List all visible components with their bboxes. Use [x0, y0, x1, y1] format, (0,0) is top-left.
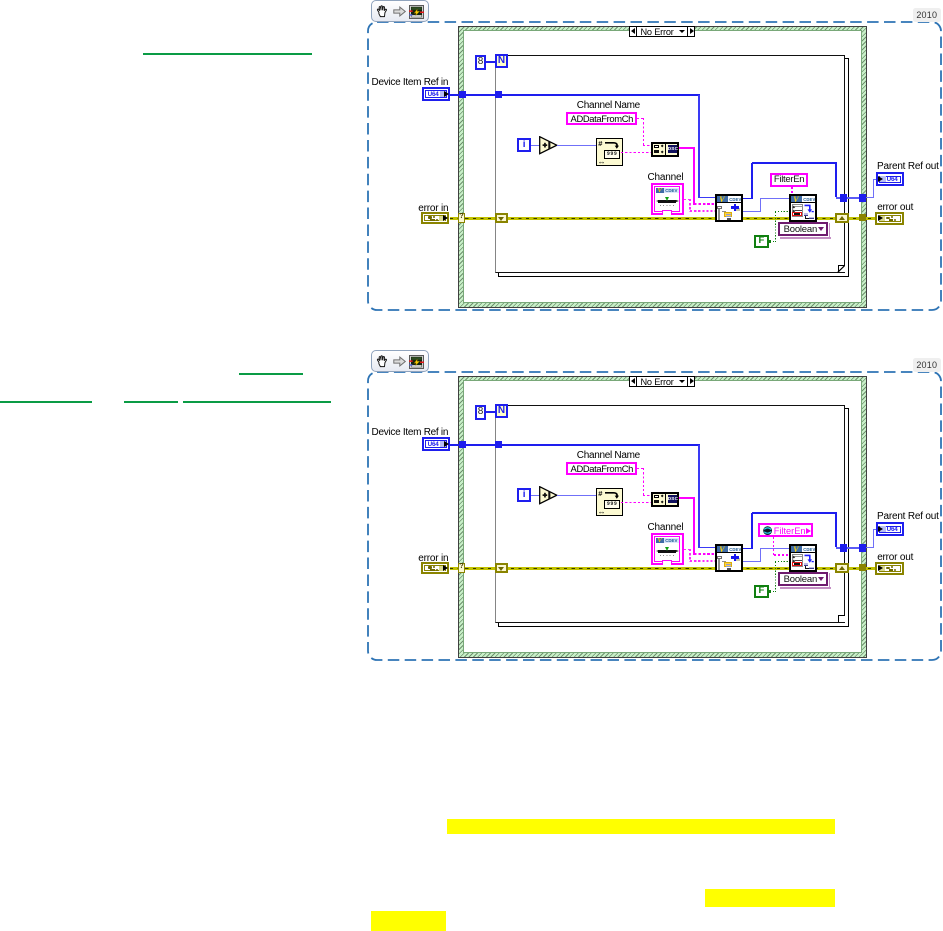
- wire i to increment (diagram 1): [531, 145, 540, 146]
- hyperlink underline 3b: [124, 401, 179, 403]
- write channel property VI (diagram 1): [789, 194, 817, 222]
- step arrow icon (diagram 2): [393, 356, 407, 368]
- VI snippet dashed border (diagram 1): [366, 20, 943, 312]
- concatenate + DSC node (diagram 2): [651, 492, 679, 507]
- case selector ? terminal (diagram 2): [458, 563, 465, 573]
- indicator terminal Parent Ref out (diagram 2): [876, 522, 904, 536]
- label Channel Name (diagram 2): [577, 450, 640, 461]
- boolean wire F to write VI (diagram 1): [770, 241, 776, 242]
- LabVIEW VI icon (diagram 1): [409, 5, 424, 19]
- right shift register (diagram 2): [835, 563, 849, 573]
- left shift register (diagram 1): [495, 213, 508, 223]
- ref tunnel on loop frame (diagram 1): [495, 91, 502, 98]
- text highlight 1: [447, 819, 835, 834]
- toolbar tab (diagram 1): [371, 0, 429, 21]
- ref tunnel on case frame (diagram 1): [459, 91, 466, 98]
- for loop back frame (diagram 2): [498, 408, 849, 627]
- ref tunnel on case frame right (diagram 2): [859, 544, 866, 551]
- string wire constant to concat (diagram 1): [637, 118, 644, 119]
- indicator terminal Parent Ref out (diagram 1): [876, 172, 904, 186]
- error wire (diagram 1): [450, 217, 876, 220]
- loop corner fold (diagram 1): [838, 265, 845, 272]
- iteration terminal i (diagram 1): [517, 138, 531, 152]
- string wire constant to concat (diagram 2): [637, 468, 644, 469]
- hand tool icon (diagram 1): [375, 4, 389, 19]
- increment node (diagram 2): [539, 486, 559, 505]
- case structure frame (diagram 2): [458, 376, 867, 658]
- string wire format to concat (diagram 2): [621, 502, 652, 503]
- number-to-string format node (diagram 2): [596, 488, 624, 515]
- label error in (diagram 2): [418, 553, 448, 564]
- loop count terminal N (diagram 2): [495, 404, 508, 418]
- wire to Parent Ref out terminal (diagram 2): [866, 547, 874, 548]
- error out indicator terminal (diagram 1): [875, 212, 904, 225]
- Boolean type ring constant (diagram 1): [829, 223, 830, 237]
- case selector label "No Error" (diagram 2): [629, 376, 695, 388]
- string wire format to concat (diagram 1): [621, 152, 652, 153]
- Channel cluster control icon (diagram 2): [651, 533, 684, 566]
- case structure frame (diagram 1): [458, 26, 867, 308]
- wire rail drop to add-channel VI (diagram 1): [698, 95, 700, 198]
- add channel to library VI (diagram 1): [715, 194, 743, 222]
- string constant ADDataFromCh (diagram 2): [566, 462, 637, 475]
- case selector label "No Error" (diagram 1): [629, 26, 695, 38]
- toolbar tab (diagram 2): [371, 350, 429, 371]
- wire 8 to N (diagram 2): [486, 411, 495, 412]
- string constant FilterEn (diagram 1): [770, 173, 808, 187]
- hand tool icon (diagram 2): [375, 354, 389, 369]
- error out indicator terminal (diagram 2): [875, 562, 904, 575]
- string wire FilterEn shared variable to write VI (diagram 2): [773, 537, 775, 555]
- case selector ? terminal (diagram 1): [458, 213, 465, 223]
- LabVIEW VI icon (diagram 2): [409, 355, 424, 369]
- label Channel (diagram 1): [648, 172, 684, 183]
- iteration terminal i (diagram 2): [517, 488, 531, 502]
- wire add-channel VI out to rail (diagram 2): [743, 548, 753, 550]
- boolean false constant F (diagram 2): [754, 585, 768, 598]
- number-to-string format node (diagram 1): [596, 138, 624, 165]
- step arrow icon (diagram 1): [393, 6, 407, 18]
- string wire concat out (diagram 1): [679, 147, 695, 149]
- wire channel ref to write VI (diagram 2): [743, 561, 761, 562]
- string wire FilterEn to write VI (diagram 1): [791, 187, 793, 194]
- ref tunnel on loop frame right (diagram 1): [840, 194, 847, 201]
- error wire (diagram 2): [450, 567, 876, 570]
- hyperlink underline 2: [239, 373, 303, 375]
- boolean false constant F (diagram 1): [754, 235, 768, 248]
- wire add-channel VI out to rail (diagram 1): [743, 198, 753, 200]
- numeric constant 8 (diagram 1): [475, 55, 486, 70]
- reference wire rail (diagram 1): [450, 94, 700, 96]
- string wire concat out (diagram 2): [679, 497, 695, 499]
- boolean wire F to write VI (diagram 2): [770, 591, 776, 592]
- cluster wire Channel to add-channel VI (diagram 2): [684, 549, 691, 551]
- increment node (diagram 1): [539, 136, 559, 155]
- Boolean type ring constant (diagram 2): [829, 573, 830, 587]
- add-channel VI banner (diagram 1): [717, 196, 741, 203]
- wire to Parent Ref out terminal (diagram 1): [866, 197, 874, 198]
- control terminal Device Item Ref in (diagram 2): [422, 437, 450, 451]
- label error in (diagram 1): [418, 203, 448, 214]
- for loop back frame (diagram 1): [498, 58, 849, 277]
- for loop front frame (diagram 2): [495, 405, 846, 624]
- numeric constant 8 (diagram 2): [475, 405, 486, 420]
- ref tunnel on loop frame (diagram 2): [495, 441, 502, 448]
- cluster wire Channel to add-channel VI (diagram 1): [684, 199, 691, 201]
- LabVIEW 2010 version chip (diagram 1): [913, 8, 942, 22]
- error tunnel on case frame (diagram 2): [859, 564, 866, 571]
- wire increment to format (diagram 1): [557, 145, 596, 146]
- label Channel (diagram 2): [648, 522, 684, 533]
- label error out (diagram 1): [877, 202, 913, 213]
- wire 8 to N (diagram 1): [486, 61, 495, 62]
- add channel to library VI (diagram 2): [715, 544, 743, 572]
- hyperlink underline 1: [143, 53, 313, 55]
- left shift register (diagram 2): [495, 563, 508, 573]
- label error out (diagram 2): [877, 552, 913, 563]
- wire increment to format (diagram 2): [557, 495, 596, 496]
- hyperlink underline 3a: [0, 401, 92, 403]
- text highlight 2: [705, 889, 835, 907]
- right shift register (diagram 1): [835, 213, 849, 223]
- Channel cluster control icon (diagram 1): [651, 183, 684, 216]
- write channel property VI (diagram 2): [789, 544, 817, 572]
- text highlight 3: [371, 911, 446, 931]
- reference wire rail (diagram 2): [450, 444, 700, 446]
- label Channel Name (diagram 1): [577, 100, 640, 111]
- VI snippet dashed border (diagram 2): [366, 370, 943, 662]
- ref tunnel on case frame right (diagram 1): [859, 194, 866, 201]
- LabVIEW 2010 version chip (diagram 2): [913, 358, 942, 372]
- ref tunnel on case frame (diagram 2): [459, 441, 466, 448]
- string constant ADDataFromCh (diagram 1): [566, 112, 637, 125]
- ref tunnel on loop frame right (diagram 2): [840, 544, 847, 551]
- add-channel VI banner (diagram 2): [717, 546, 741, 553]
- loop count terminal N (diagram 1): [495, 54, 508, 68]
- hyperlink underline 3c: [183, 401, 331, 403]
- write VI banner (diagram 2): [791, 546, 815, 553]
- wire channel ref to write VI (diagram 1): [743, 211, 761, 212]
- wire rail drop to add-channel VI (diagram 2): [698, 445, 700, 548]
- label Device Item Ref in (diagram 1): [372, 77, 449, 88]
- label Device Item Ref in (diagram 2): [372, 427, 449, 438]
- label Parent Ref out (diagram 1): [877, 161, 939, 172]
- concatenate + DSC node (diagram 1): [651, 142, 679, 157]
- error in terminal (diagram 1): [421, 212, 449, 225]
- error tunnel on case frame (diagram 1): [859, 214, 866, 221]
- shared variable node FilterEn (diagram 2): [758, 523, 813, 537]
- label Parent Ref out (diagram 2): [877, 511, 939, 522]
- loop corner fold (diagram 2): [838, 615, 845, 622]
- control terminal Device Item Ref in (diagram 1): [422, 87, 450, 101]
- wire i to increment (diagram 2): [531, 495, 540, 496]
- for loop front frame (diagram 1): [495, 55, 846, 274]
- error in terminal (diagram 2): [421, 562, 449, 575]
- write VI banner (diagram 1): [791, 196, 815, 203]
